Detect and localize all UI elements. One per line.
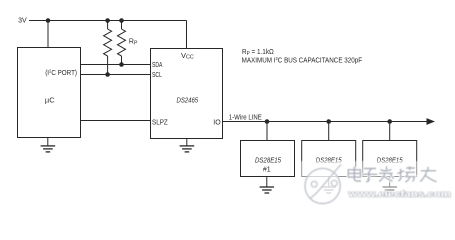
wire SDA [81,64,151,66]
node slave3 junction [387,119,392,124]
svg-text:DS2465: DS2465 [177,98,199,105]
svg-text:VCC: VCC [181,51,194,61]
node slave1 junction [265,119,270,124]
DS28E15 box 2 [302,141,356,177]
svg-text:DS28E15: DS28E15 [255,157,281,164]
svg-text:MAXIMUM I2C BUS CAPACITANCE 32: MAXIMUM I2C BUS CAPACITANCE 320pF [242,56,363,64]
watermark char zi [363,169,377,182]
ground DS2465 [180,139,195,152]
ground slave1 [260,177,275,194]
svg-text:3V: 3V [18,18,27,25]
ground uC [41,138,56,152]
watermark logo circle [305,165,341,204]
node 3V/uC junction [46,18,51,23]
DS28E15 box 3 [363,141,417,177]
watermark char you [420,167,436,182]
wire drop slave1 [266,122,268,141]
ground slave2 [322,177,337,194]
node RP2/SDA junction [119,62,124,67]
node RP2 top [119,18,124,23]
node RP1 top [105,18,110,23]
svg-text:(I2C PORT): (I2C PORT) [45,69,77,77]
wire SLPZ [81,120,151,122]
wire VCC drop to DS2465 [186,21,188,49]
wire drop slave3 [389,122,391,141]
wire 3V to uC top [47,21,49,48]
resistor RP2 [118,21,126,65]
arrowhead 1-Wire LINE [427,118,436,125]
svg-text:#1: #1 [263,166,271,173]
ground slave3 [383,177,398,194]
svg-text:RP = 1.1kΩ: RP = 1.1kΩ [242,49,274,57]
svg-text:1-Wire LINE: 1-Wire LINE [229,114,262,121]
svg-text:µC: µC [45,96,55,105]
wire drop slave2 [328,122,330,141]
svg-text:IO: IO [213,120,221,127]
svg-text:www.elecfans.com: www.elecfans.com [347,189,451,200]
resistor RP1 [104,21,112,75]
uC box [18,48,81,138]
svg-text:SDA: SDA [152,62,163,69]
svg-text:SLPZ: SLPZ [152,120,168,127]
watermark overlay fade [300,161,455,207]
watermark char dian [348,167,361,182]
wire 1-Wire LINE [223,121,429,123]
wire 3V rail [29,20,187,22]
node slave2 junction [326,119,331,124]
watermark char fa [379,166,394,181]
DS28E15 box 1 [241,141,295,177]
DS2465 box (U1 1-Wire master) [151,49,223,139]
svg-text:SCL: SCL [152,72,162,79]
svg-text:RP: RP [129,39,138,47]
watermark char shao [397,166,415,182]
wire SCL [81,74,151,76]
node RP1/SCL junction [105,72,110,77]
